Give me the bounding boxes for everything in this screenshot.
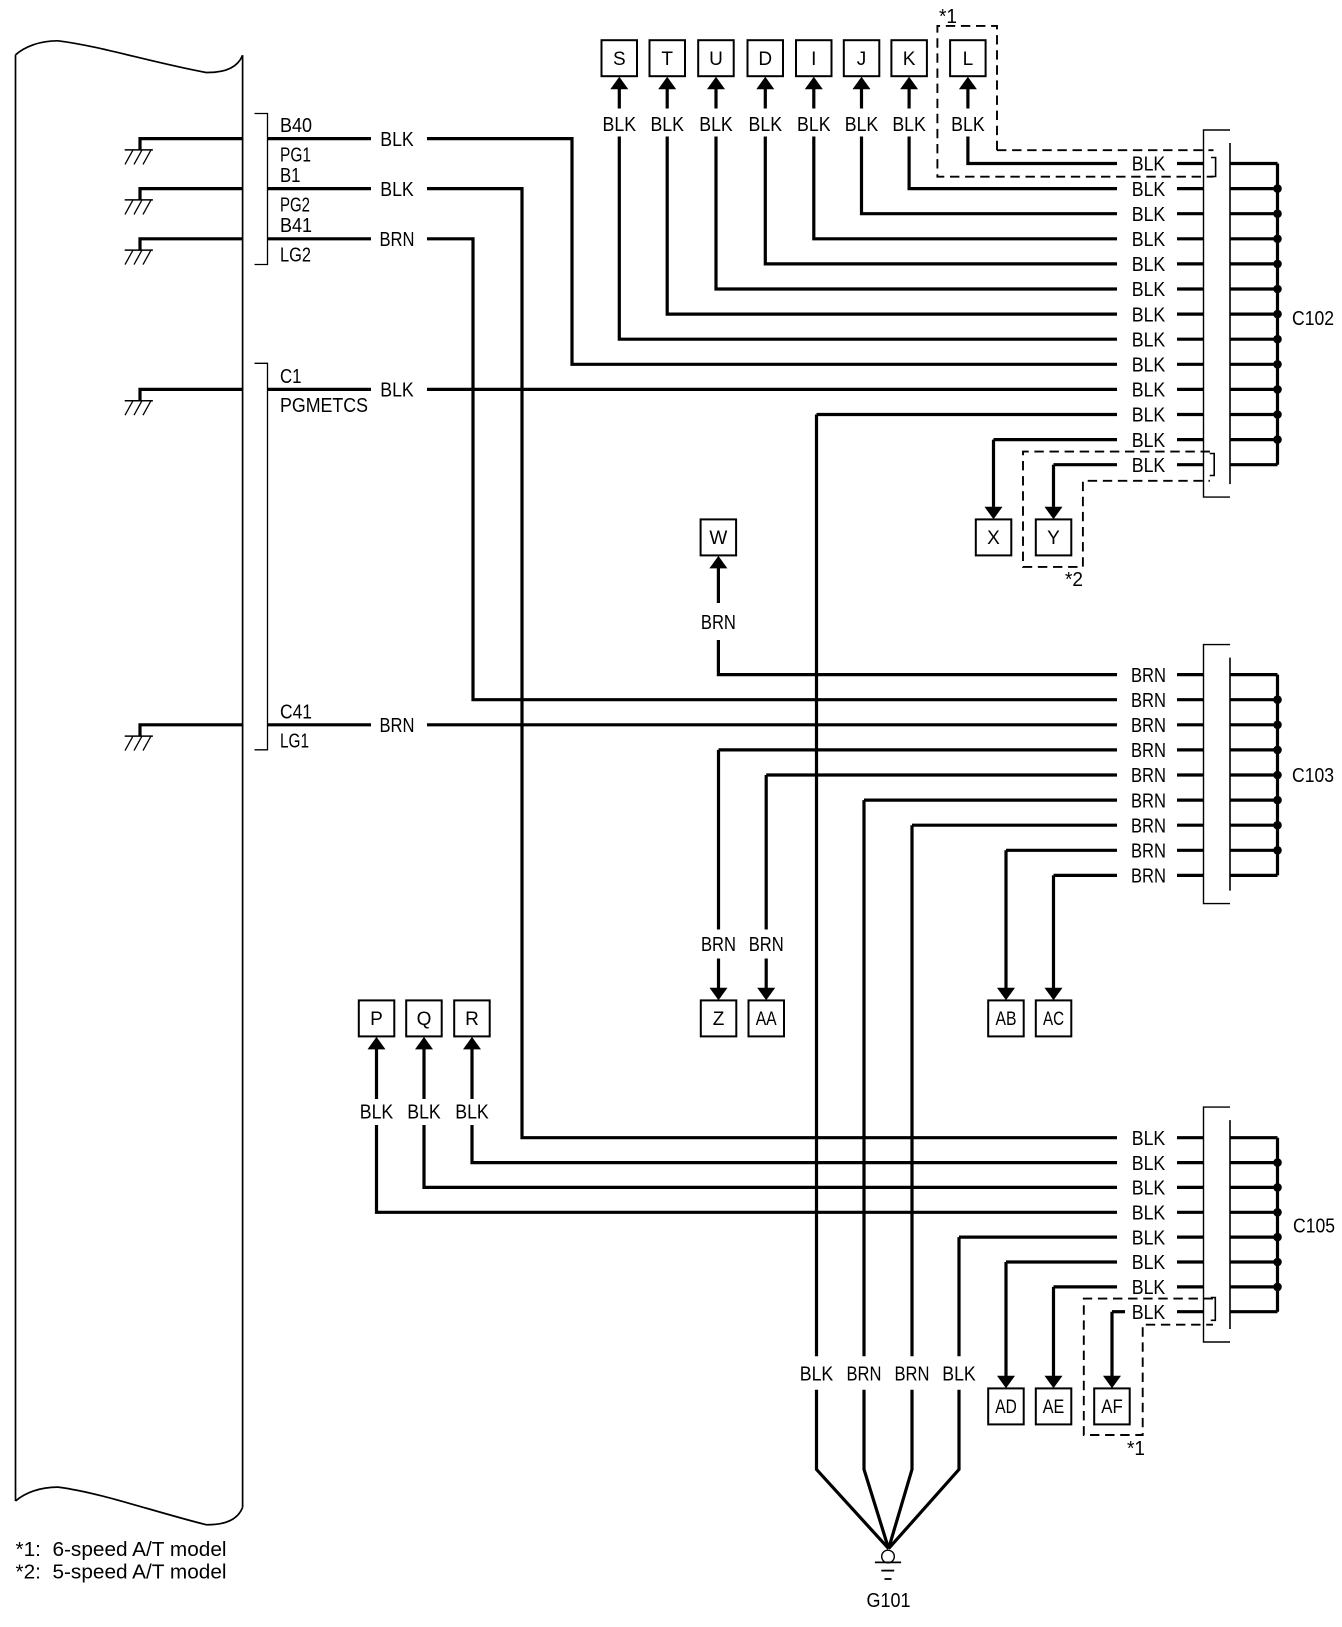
connector C105 bus xyxy=(1276,1138,1279,1312)
ground xyxy=(125,249,153,251)
connector C103 shell xyxy=(1204,645,1231,904)
svg-text:BLK: BLK xyxy=(1132,1203,1166,1225)
wire BRN to G101 xyxy=(864,798,1117,801)
terminal box J xyxy=(844,40,880,76)
wire C103 pin 5 BRN to AA xyxy=(766,773,1117,776)
junction dot xyxy=(1273,1233,1282,1242)
svg-text:U: U xyxy=(709,49,723,70)
svg-text:BRN: BRN xyxy=(749,934,784,956)
svg-text:*1: *1 xyxy=(939,6,957,28)
svg-text:BRN: BRN xyxy=(847,1363,882,1385)
dashed box *1 end bracket xyxy=(1211,158,1216,177)
junction dot xyxy=(1273,771,1282,780)
pin group bracket C1..LG1 xyxy=(255,363,268,750)
svg-text:BRN: BRN xyxy=(1131,740,1166,762)
wire C105 pin 6 BLK to AD xyxy=(1006,1260,1117,1263)
connector C102 bus xyxy=(1276,164,1279,465)
svg-text:BLK: BLK xyxy=(1132,254,1166,276)
svg-text:BLK: BLK xyxy=(1132,1252,1166,1274)
arrow into I xyxy=(805,77,823,90)
terminal box AB xyxy=(988,1000,1024,1036)
svg-text:AD: AD xyxy=(995,1397,1017,1418)
svg-text:AA: AA xyxy=(756,1009,777,1030)
wire ground lead B1/PG2 xyxy=(140,189,243,200)
svg-text:BLK: BLK xyxy=(1132,1302,1166,1324)
wire BRN to G101 xyxy=(912,824,1117,827)
dashed option box *1 around L xyxy=(937,26,1213,177)
wire K BLK to C102 xyxy=(907,89,910,109)
junction dot xyxy=(1273,746,1282,755)
wire B1 BLK to C105 pin 1 xyxy=(268,187,372,190)
wire C102 pin 13 BLK to Y xyxy=(1054,463,1118,466)
ECM/PCM block left edge xyxy=(15,55,17,1501)
terminal box U xyxy=(698,40,734,76)
svg-text:C41: C41 xyxy=(280,701,312,723)
wire C103 pin 4 BRN to Z xyxy=(719,748,1118,751)
arrow into U xyxy=(707,77,725,90)
svg-text:BLK: BLK xyxy=(845,114,879,136)
arrow into L xyxy=(959,77,977,90)
svg-text:BRN: BRN xyxy=(380,715,415,737)
svg-text:LG2: LG2 xyxy=(280,245,311,267)
svg-text:BLK: BLK xyxy=(1132,1128,1166,1150)
svg-text:BLK: BLK xyxy=(1132,204,1166,226)
svg-text:PG1: PG1 xyxy=(280,145,311,167)
terminal box X xyxy=(976,519,1012,555)
junction dot xyxy=(1273,1258,1282,1267)
svg-text:Q: Q xyxy=(417,1009,432,1030)
terminal box R xyxy=(454,1000,490,1036)
wire J BLK to C102 xyxy=(860,89,863,109)
ground G101 xyxy=(882,1550,895,1563)
terminal box Z xyxy=(701,1000,737,1036)
svg-text:BRN: BRN xyxy=(701,612,736,634)
wire Q BLK to C105 xyxy=(422,1049,425,1099)
arrow into Y xyxy=(1045,507,1063,520)
arrow into T xyxy=(658,77,676,90)
svg-text:BRN: BRN xyxy=(1131,765,1166,787)
svg-text:D: D xyxy=(758,49,772,70)
ground xyxy=(125,149,153,151)
arrow into P xyxy=(368,1037,386,1050)
pin group bracket B40..LG2 xyxy=(255,114,268,265)
terminal box D xyxy=(748,40,784,76)
svg-text:T: T xyxy=(661,49,673,70)
wire C105 pin 7 BLK to AE xyxy=(1054,1285,1118,1288)
arrow into AD xyxy=(997,1376,1015,1389)
svg-text:C105: C105 xyxy=(1293,1216,1335,1238)
svg-text:BLK: BLK xyxy=(1132,1277,1166,1299)
junction dot xyxy=(1273,1158,1282,1167)
terminal box AF xyxy=(1094,1388,1130,1424)
junction dot xyxy=(1273,209,1282,218)
wire ground lead B41/LG2 xyxy=(140,239,243,250)
svg-text:W: W xyxy=(709,528,727,549)
wire P BLK to C105 xyxy=(375,1049,378,1099)
wire B41 BRN to C103 pin 2 xyxy=(268,237,372,240)
svg-text:BLK: BLK xyxy=(455,1101,489,1123)
svg-text:BRN: BRN xyxy=(895,1363,930,1385)
terminal box T xyxy=(650,40,686,76)
svg-text:BLK: BLK xyxy=(1132,1227,1166,1249)
wire D BLK to C102 xyxy=(764,89,767,109)
svg-text:C103: C103 xyxy=(1292,765,1334,787)
svg-text:BRN: BRN xyxy=(1131,790,1166,812)
terminal box AD xyxy=(988,1388,1024,1424)
junction dot xyxy=(1273,360,1282,369)
junction dot xyxy=(1273,285,1282,294)
svg-text:K: K xyxy=(903,49,916,70)
svg-text:BLK: BLK xyxy=(360,1101,394,1123)
svg-text:B1: B1 xyxy=(280,165,301,187)
svg-text:BLK: BLK xyxy=(1132,154,1166,176)
arrow into W xyxy=(709,556,727,569)
wire S BLK to C102 xyxy=(618,89,621,109)
junction dot xyxy=(1273,235,1282,244)
svg-text:Y: Y xyxy=(1047,528,1060,549)
terminal box K xyxy=(891,40,927,76)
svg-text:P: P xyxy=(370,1009,383,1030)
arrow into AA xyxy=(757,988,775,1001)
connector C102 shell xyxy=(1204,130,1231,497)
wire C105 pin 8 BLK to AF xyxy=(1112,1310,1125,1313)
arrow into AE xyxy=(1045,1376,1063,1389)
wire C41 BRN to C103 pin 3 xyxy=(268,723,372,726)
terminal box AA xyxy=(749,1000,785,1036)
junction dot xyxy=(1273,1183,1282,1192)
svg-text:BLK: BLK xyxy=(749,114,783,136)
svg-text:L: L xyxy=(963,49,974,70)
svg-text:BLK: BLK xyxy=(1132,279,1166,301)
arrow into X xyxy=(985,507,1003,520)
wire T BLK to C102 xyxy=(666,89,669,109)
terminal box Q xyxy=(406,1000,442,1036)
terminal box AC xyxy=(1036,1000,1072,1036)
svg-text:AE: AE xyxy=(1043,1397,1065,1418)
junction dot xyxy=(1273,184,1282,193)
terminal box Y xyxy=(1036,519,1072,555)
svg-text:Z: Z xyxy=(713,1009,725,1030)
svg-text:AB: AB xyxy=(996,1009,1017,1030)
wire C102 pin 12 BLK to X xyxy=(994,438,1118,441)
svg-text:BRN: BRN xyxy=(380,229,415,251)
arrow into D xyxy=(756,77,774,90)
terminal box L xyxy=(950,40,986,76)
wire U BLK to C102 xyxy=(714,89,717,109)
svg-text:BLK: BLK xyxy=(1132,1178,1166,1200)
svg-text:BLK: BLK xyxy=(892,114,926,136)
arrow into S xyxy=(610,77,628,90)
dashed option box *1 around AF xyxy=(1084,1299,1213,1435)
svg-text:X: X xyxy=(987,528,1000,549)
svg-text:BRN: BRN xyxy=(1131,815,1166,837)
wire I BLK to C102 xyxy=(812,89,815,109)
svg-text:BLK: BLK xyxy=(1132,355,1166,377)
junction dot xyxy=(1273,385,1282,394)
arrow into AF xyxy=(1103,1376,1121,1389)
wire C103 pin 8 BRN to AB xyxy=(1006,849,1117,852)
svg-text:LG1: LG1 xyxy=(280,730,309,752)
wire L BLK to C102 xyxy=(966,89,969,109)
svg-text:BLK: BLK xyxy=(951,114,985,136)
svg-text:BRN: BRN xyxy=(701,934,736,956)
arrow into K xyxy=(900,77,918,90)
arrow into Q xyxy=(415,1037,433,1050)
ECM/PCM block torn top edge xyxy=(16,41,243,73)
ECM/PCM block right edge xyxy=(242,55,244,1507)
terminal box AE xyxy=(1036,1388,1072,1424)
junction dot xyxy=(1273,721,1282,730)
svg-text:G101: G101 xyxy=(867,1590,911,1612)
svg-text:B41: B41 xyxy=(280,215,312,237)
svg-text:BLK: BLK xyxy=(1132,304,1166,326)
wire BLK to G101 xyxy=(959,1235,1117,1238)
svg-text:J: J xyxy=(857,49,867,70)
svg-text:BLK: BLK xyxy=(1132,229,1166,251)
wire C1 BLK to C102 pin 10 xyxy=(268,388,372,391)
svg-text:AF: AF xyxy=(1101,1397,1123,1418)
junction dot xyxy=(1273,410,1282,419)
svg-text:BLK: BLK xyxy=(1132,430,1166,452)
terminal box S xyxy=(602,40,638,76)
junction dot xyxy=(1273,796,1282,805)
wire C103 pin 9 BRN to AC xyxy=(1054,874,1118,877)
svg-text:S: S xyxy=(613,49,626,70)
ECM/PCM block torn bottom edge xyxy=(16,1487,243,1525)
svg-text:BLK: BLK xyxy=(1132,179,1166,201)
svg-text:BLK: BLK xyxy=(407,1101,441,1123)
svg-text:BLK: BLK xyxy=(1132,455,1166,477)
svg-text:BLK: BLK xyxy=(603,114,637,136)
arrow into AB xyxy=(997,988,1015,1001)
svg-text:*2: 5-speed A/T model: *2: 5-speed A/T model xyxy=(16,1561,227,1583)
wire BLK to G101 xyxy=(817,413,1118,416)
connector C105 shell xyxy=(1204,1107,1231,1342)
svg-text:BLK: BLK xyxy=(1132,329,1166,351)
svg-text:*1: *1 xyxy=(1127,1438,1145,1460)
svg-text:C102: C102 xyxy=(1292,308,1334,330)
junction dot xyxy=(1273,821,1282,830)
svg-text:BRN: BRN xyxy=(1131,866,1166,888)
svg-text:AC: AC xyxy=(1043,1009,1064,1030)
arrow into J xyxy=(853,77,871,90)
svg-text:BLK: BLK xyxy=(380,179,414,201)
wire B40 BLK to C102 pin 9 xyxy=(268,137,372,140)
junction dot xyxy=(1273,1283,1282,1292)
junction dot xyxy=(1273,846,1282,855)
svg-text:R: R xyxy=(465,1009,479,1030)
connector C103 bus xyxy=(1276,675,1279,876)
svg-text:BLK: BLK xyxy=(797,114,831,136)
svg-text:BLK: BLK xyxy=(800,1363,834,1385)
svg-text:B40: B40 xyxy=(280,115,312,137)
svg-text:BLK: BLK xyxy=(650,114,684,136)
junction dot xyxy=(1273,1208,1282,1217)
terminal box P xyxy=(359,1000,395,1036)
svg-text:BLK: BLK xyxy=(380,380,414,402)
junction dot xyxy=(1273,335,1282,344)
svg-text:BLK: BLK xyxy=(380,129,414,151)
junction dot xyxy=(1273,435,1282,444)
arrow into R xyxy=(463,1037,481,1050)
arrow into AC xyxy=(1045,988,1063,1001)
terminal box I xyxy=(796,40,832,76)
svg-text:BRN: BRN xyxy=(1131,690,1166,712)
svg-text:*2: *2 xyxy=(1065,569,1083,591)
svg-text:BLK: BLK xyxy=(1132,1153,1166,1175)
junction dot xyxy=(1273,695,1282,704)
dashed option box *2 around Y xyxy=(1023,452,1210,567)
ground xyxy=(125,400,153,402)
dashed box *2 end bracket xyxy=(1210,454,1215,476)
svg-text:*1: 6-speed A/T model: *1: 6-speed A/T model xyxy=(16,1539,227,1561)
wire W BRN to C103 pin 1 xyxy=(717,568,720,603)
svg-text:I: I xyxy=(811,49,816,70)
wire ground lead C41/LG1 xyxy=(140,725,243,736)
wire ground lead C1/PGMETCS xyxy=(140,389,243,400)
svg-text:PGMETCS: PGMETCS xyxy=(280,395,368,417)
svg-text:BRN: BRN xyxy=(1131,715,1166,737)
svg-text:BLK: BLK xyxy=(699,114,733,136)
svg-text:BLK: BLK xyxy=(1132,380,1166,402)
svg-text:BLK: BLK xyxy=(942,1363,976,1385)
svg-text:BRN: BRN xyxy=(1131,841,1166,863)
ground xyxy=(125,199,153,201)
ground xyxy=(125,735,153,737)
dashed box *1 (bottom) end bracket xyxy=(1211,1298,1216,1321)
terminal box W xyxy=(701,519,737,555)
junction dot xyxy=(1273,310,1282,319)
svg-text:BRN: BRN xyxy=(1131,665,1166,687)
wire R BLK to C105 xyxy=(470,1049,473,1099)
svg-text:C1: C1 xyxy=(280,366,302,388)
svg-text:BLK: BLK xyxy=(1132,405,1166,427)
arrow into Z xyxy=(710,988,728,1001)
wire ground lead B40/PG1 xyxy=(140,139,243,150)
svg-text:PG2: PG2 xyxy=(280,195,310,217)
junction dot xyxy=(1273,260,1282,269)
